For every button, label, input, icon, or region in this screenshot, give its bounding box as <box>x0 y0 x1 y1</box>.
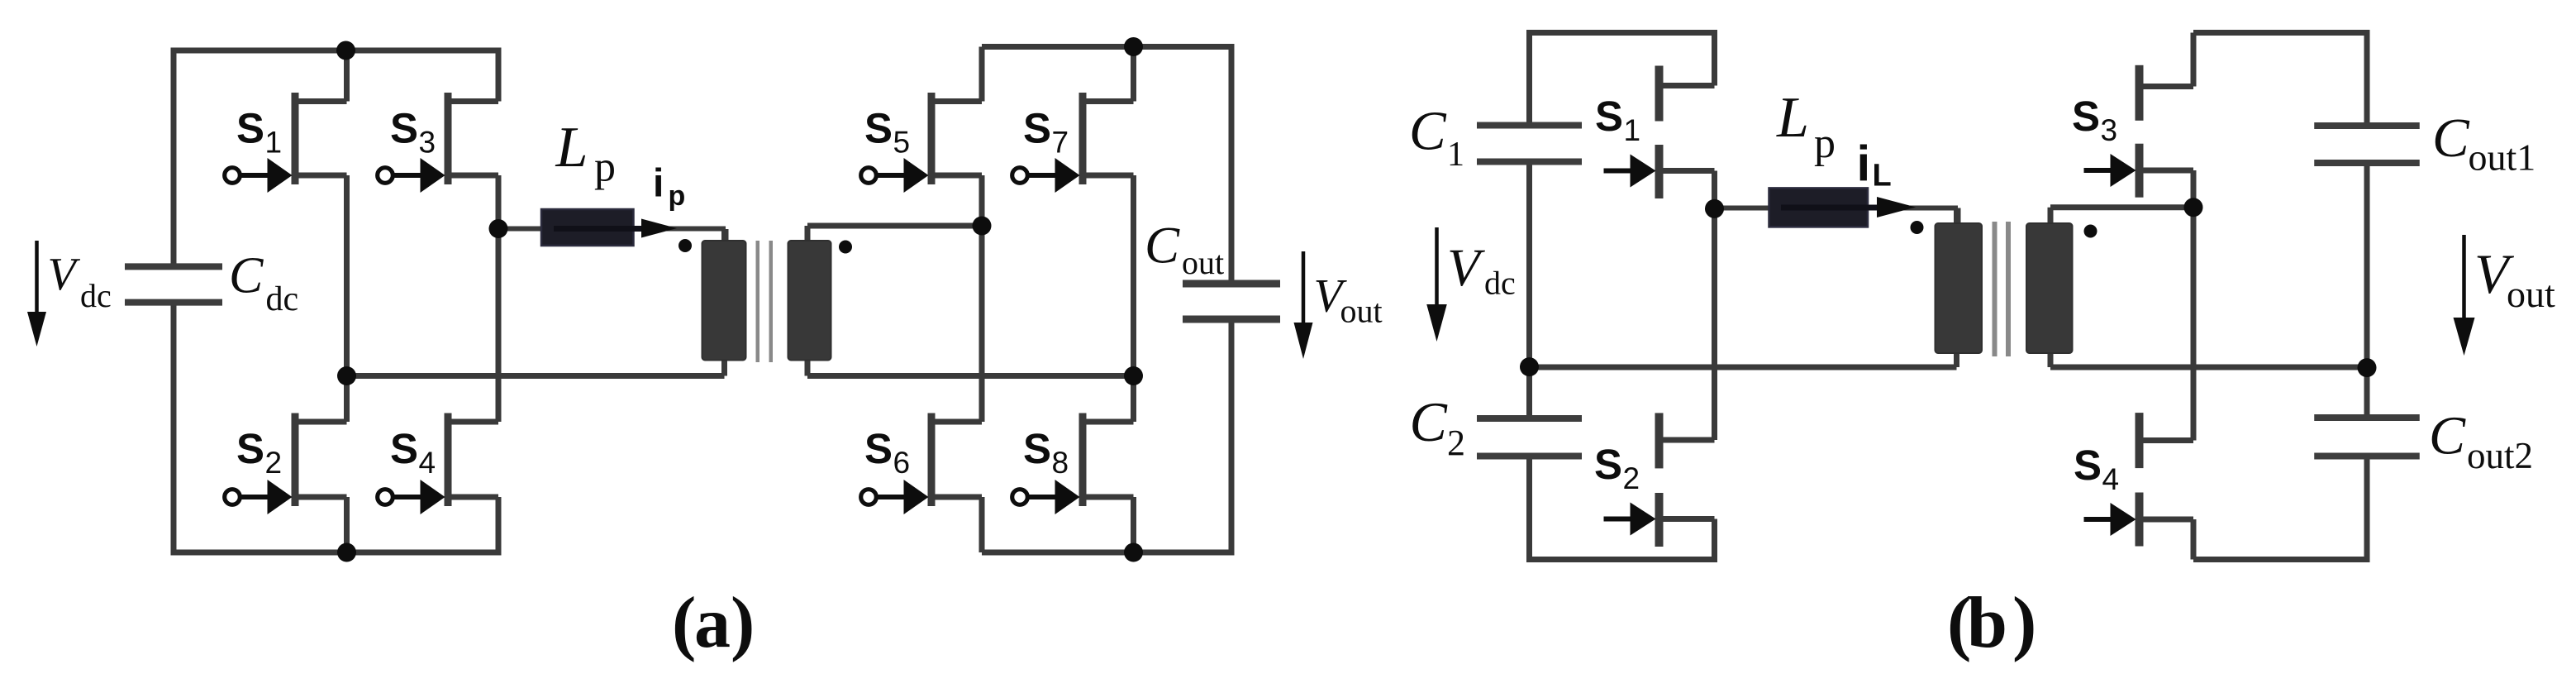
svg-text:S: S <box>1023 425 1051 472</box>
svg-text:(: ( <box>672 583 696 663</box>
svg-text:2: 2 <box>265 446 283 480</box>
svg-text:C: C <box>1410 390 1448 453</box>
svg-text:C: C <box>1409 101 1447 162</box>
svg-text:S: S <box>1023 105 1051 152</box>
svg-text:3: 3 <box>419 126 436 160</box>
svg-text:i: i <box>653 162 664 206</box>
svg-text:S: S <box>390 105 418 152</box>
svg-text:p: p <box>1814 120 1836 167</box>
svg-text:S: S <box>1595 93 1623 140</box>
svg-text:5: 5 <box>893 126 911 160</box>
svg-text:2: 2 <box>1447 423 1465 463</box>
svg-text:out1: out1 <box>2469 136 2536 179</box>
svg-text:dc: dc <box>80 277 112 314</box>
svg-text:S: S <box>864 105 893 152</box>
svg-text:dc: dc <box>1484 265 1516 302</box>
svg-text:out2: out2 <box>2467 435 2533 476</box>
svg-text:3: 3 <box>2101 113 2118 147</box>
svg-text:1: 1 <box>1447 136 1464 174</box>
svg-text:S: S <box>2072 93 2100 140</box>
svg-text:1: 1 <box>1624 113 1641 147</box>
svg-text:S: S <box>2074 442 2102 489</box>
svg-text:p: p <box>669 180 686 212</box>
svg-text:): ) <box>2012 583 2036 663</box>
svg-text:S: S <box>236 105 264 152</box>
svg-text:S: S <box>236 425 264 472</box>
svg-text:dc: dc <box>266 280 299 318</box>
svg-text:L: L <box>555 116 588 179</box>
svg-text:L: L <box>1776 86 1809 150</box>
svg-text:C: C <box>2432 108 2470 169</box>
svg-text:V: V <box>1447 238 1485 298</box>
svg-text:8: 8 <box>1052 446 1069 480</box>
svg-text:S: S <box>390 425 418 472</box>
svg-text:2: 2 <box>1623 461 1640 495</box>
svg-text:b: b <box>1967 583 2007 663</box>
svg-text:a: a <box>694 583 731 663</box>
svg-text:out: out <box>2507 273 2555 315</box>
svg-text:C: C <box>1145 217 1180 275</box>
svg-text:V: V <box>48 249 81 300</box>
svg-text:L: L <box>1873 159 1892 194</box>
svg-text:4: 4 <box>419 446 436 480</box>
svg-text:S: S <box>1594 441 1622 488</box>
svg-text:C: C <box>2429 406 2466 466</box>
svg-text:1: 1 <box>265 126 283 160</box>
svg-text:6: 6 <box>893 446 911 480</box>
svg-text:out: out <box>1340 293 1383 330</box>
svg-text:4: 4 <box>2102 462 2120 496</box>
svg-text:i: i <box>1857 136 1871 192</box>
svg-text:C: C <box>229 248 264 304</box>
svg-text:out: out <box>1182 244 1224 281</box>
svg-text:7: 7 <box>1052 126 1069 160</box>
svg-text:p: p <box>594 144 616 191</box>
svg-text:): ) <box>731 583 755 663</box>
svg-text:S: S <box>864 425 893 472</box>
